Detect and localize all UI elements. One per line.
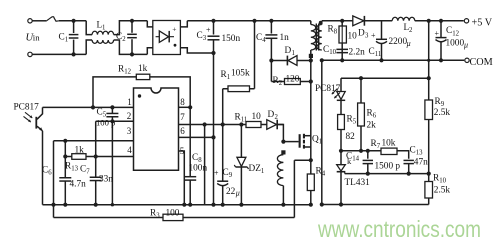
svg-text:1000: 1000: [446, 39, 465, 49]
svg-text:105k: 105k: [231, 69, 250, 79]
svg-text:4: 4: [127, 145, 132, 155]
svg-text:+: +: [371, 31, 376, 40]
svg-text:PC817: PC817: [315, 84, 341, 94]
svg-text:2.5k: 2.5k: [434, 108, 451, 118]
svg-text:+: +: [435, 29, 440, 38]
svg-text:47n: 47n: [414, 158, 428, 168]
svg-text:+: +: [206, 26, 211, 35]
svg-text:+: +: [172, 25, 176, 34]
svg-text:2.5k: 2.5k: [434, 186, 451, 196]
svg-text:3: 3: [127, 126, 132, 136]
svg-text:TL431: TL431: [345, 178, 371, 188]
svg-text:www.cntronics.com: www.cntronics.com: [317, 216, 481, 242]
svg-text:2: 2: [409, 27, 413, 34]
svg-text:8: 8: [180, 97, 185, 107]
svg-text:COM: COM: [470, 57, 493, 68]
svg-text:1n: 1n: [280, 33, 290, 43]
svg-text:1: 1: [127, 97, 132, 107]
svg-text:100 p: 100 p: [96, 118, 115, 128]
svg-text:22: 22: [226, 187, 236, 197]
svg-text:7: 7: [180, 112, 185, 122]
svg-text:2: 2: [127, 111, 132, 121]
svg-text:1k: 1k: [75, 146, 85, 156]
svg-text:4.7n: 4.7n: [70, 180, 87, 190]
svg-text:D: D: [268, 110, 275, 120]
svg-text:6: 6: [180, 126, 185, 136]
svg-text:D: D: [285, 46, 292, 56]
svg-text:33n: 33n: [99, 175, 113, 185]
svg-text:150n: 150n: [222, 34, 241, 44]
svg-text:1: 1: [292, 50, 295, 57]
svg-text:μ: μ: [463, 41, 468, 50]
svg-text:μ: μ: [235, 189, 240, 198]
svg-text:+: +: [214, 169, 219, 178]
svg-text:10: 10: [348, 32, 358, 42]
svg-text:10: 10: [252, 112, 262, 122]
svg-text:1500 p: 1500 p: [375, 162, 401, 172]
svg-text:10k: 10k: [382, 139, 396, 149]
svg-text:2: 2: [275, 114, 279, 121]
svg-text:in: in: [33, 32, 40, 42]
svg-text:PC817: PC817: [14, 103, 40, 113]
svg-text:+5 V: +5 V: [472, 17, 493, 28]
svg-text:1: 1: [102, 25, 105, 32]
svg-text:3: 3: [365, 33, 369, 40]
svg-text:2200: 2200: [389, 37, 408, 47]
svg-text:100: 100: [166, 209, 180, 219]
svg-text:82: 82: [346, 132, 356, 142]
svg-text:2.2n: 2.2n: [349, 48, 366, 58]
svg-text:120: 120: [286, 75, 300, 85]
svg-text:2k: 2k: [367, 121, 377, 131]
svg-text:μ: μ: [406, 39, 411, 48]
svg-text:D: D: [358, 29, 365, 39]
svg-text:1k: 1k: [138, 64, 148, 74]
